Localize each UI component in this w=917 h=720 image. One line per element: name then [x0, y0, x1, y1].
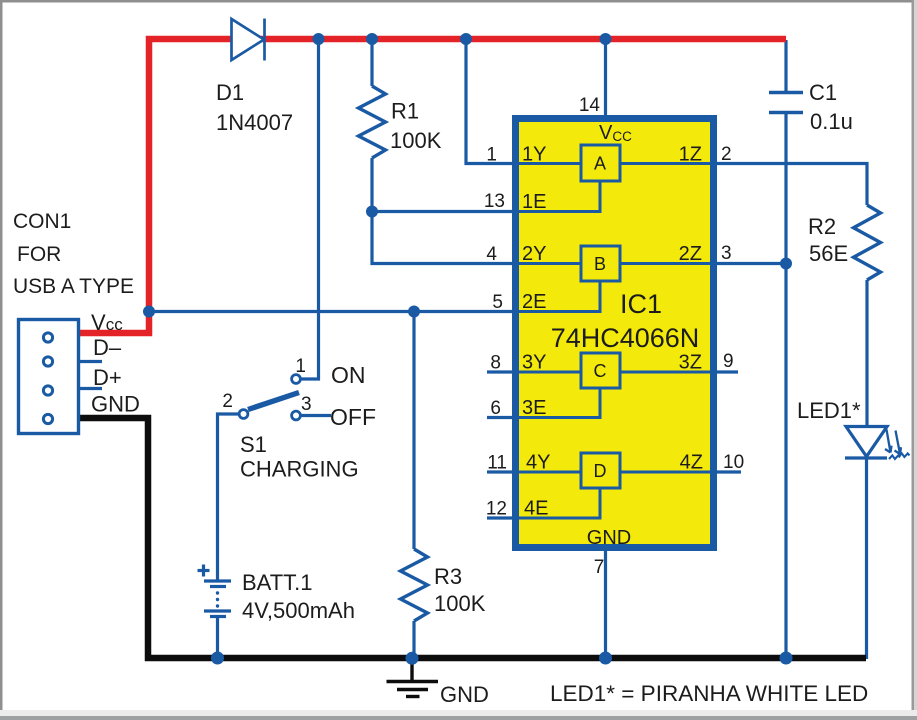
wire: pin7 [604, 548, 607, 657]
switch S1 pole circle (pin2) [239, 410, 248, 419]
svg-text:GND: GND [587, 527, 631, 549]
wire: pin2 (1Z) to R2 [713, 164, 867, 206]
svg-text:56E: 56E [809, 241, 848, 266]
wire: R1 bottom to pin13 node [370, 158, 373, 212]
resistor R2 [854, 205, 881, 280]
svg-text:100K: 100K [434, 591, 486, 616]
svg-text:100K: 100K [390, 128, 442, 153]
wire: 4E internal [519, 489, 600, 518]
junction dot top rail 3 [460, 33, 472, 45]
wire: switch pin3 stub [300, 414, 331, 417]
wire: pin9 stub [717, 370, 738, 373]
svg-text:FOR: FOR [17, 243, 61, 266]
svg-text:2E: 2E [522, 291, 546, 313]
wire: USB D+ stub [80, 387, 102, 390]
svg-text:3: 3 [721, 243, 732, 264]
junction dot top rail 2 [366, 33, 378, 45]
svg-text:4Z: 4Z [680, 452, 703, 474]
svg-text:12: 12 [486, 499, 507, 520]
wire: pin8 stub [487, 370, 512, 373]
svg-text:LED1* = PIRANHA WHITE LED: LED1* = PIRANHA WHITE LED [550, 681, 868, 706]
svg-text:1: 1 [295, 356, 306, 377]
svg-text:2: 2 [222, 391, 233, 412]
LED1 symbol [846, 427, 887, 457]
wire: 4Y internal [519, 471, 581, 474]
svg-text:4Y: 4Y [526, 452, 550, 474]
svg-text:1Z: 1Z [679, 144, 702, 166]
svg-text:9: 9 [723, 351, 734, 372]
svg-text:CON1: CON1 [13, 210, 71, 233]
capacitor C1 [769, 91, 803, 95]
switch cell D [581, 453, 620, 488]
USB pin circle 3 [43, 386, 52, 395]
wire: node to pin4 (2Y) [372, 212, 515, 264]
svg-text:C: C [594, 361, 607, 381]
svg-text:4E: 4E [524, 498, 548, 520]
wire: switch pin2 to battery [218, 414, 241, 580]
resistor R3 [401, 549, 428, 621]
wire: 2Z internal [620, 262, 710, 265]
switch cell B [581, 246, 620, 281]
wire: 3Y internal [519, 371, 581, 374]
wire: 3E internal [519, 389, 600, 418]
wire: pin12 stub [487, 516, 512, 519]
svg-text:GND: GND [440, 682, 489, 707]
wire: 4Z internal [620, 471, 710, 474]
svg-text:8: 8 [490, 353, 501, 374]
battery BATT.1 [204, 579, 231, 582]
wire: pin14 [604, 40, 607, 118]
svg-text:11: 11 [487, 453, 507, 474]
junction dot top rail 1 [313, 33, 325, 45]
svg-text:D1: D1 [216, 80, 244, 105]
svg-text:3: 3 [301, 394, 312, 415]
svg-text:74HC4066N: 74HC4066N [551, 323, 700, 353]
wire: pin1 riser [466, 40, 515, 164]
LED1 emission arrow 1 [887, 430, 891, 453]
svg-text:R1: R1 [391, 99, 419, 124]
svg-text:D–: D– [93, 335, 122, 360]
wire: 2E / pin5 rail from Vcc node [149, 310, 515, 313]
wire: LED1 to ground rail [865, 458, 868, 659]
junction dot top rail 4 (pin14) [600, 33, 612, 45]
IC1 body [516, 119, 714, 548]
svg-text:2: 2 [721, 144, 732, 165]
wire: C1 / pin3 drop [784, 40, 787, 93]
switch S1 throw circle (pin1) [292, 375, 301, 384]
wire: pin10 stub [717, 470, 741, 473]
wire: pin13 (1E) [372, 210, 515, 213]
wire: pin3 (2Z) to C1 line [713, 262, 786, 265]
wire: switch pin1 riser [300, 40, 319, 379]
junction dot R1/pin13 [366, 206, 378, 218]
wire: C1 bottom to ground rail [784, 113, 787, 658]
svg-text:USB A TYPE: USB A TYPE [13, 275, 134, 298]
diode D1 [232, 19, 265, 60]
USB connector CON1 body [19, 320, 79, 434]
junction dot R3 top [408, 306, 420, 318]
svg-text:1: 1 [486, 145, 497, 166]
svg-text:2Z: 2Z [679, 243, 702, 265]
svg-text:3E: 3E [522, 397, 546, 419]
svg-text:10: 10 [723, 452, 744, 473]
junction dot pin3/C1 [780, 258, 792, 270]
svg-text:A: A [594, 154, 606, 174]
svg-text:13: 13 [484, 191, 505, 212]
USB pin circle 4 [43, 414, 52, 423]
wire: 2E internal [519, 282, 600, 312]
junction dot C1/rail [780, 652, 793, 665]
svg-text:D: D [594, 461, 607, 481]
svg-text:7: 7 [594, 557, 605, 578]
svg-text:5: 5 [492, 292, 503, 313]
svg-text:IC1: IC1 [620, 289, 662, 319]
ground symbol [410, 658, 413, 682]
svg-text:CHARGING: CHARGING [240, 457, 359, 482]
switch S1 arm [248, 393, 299, 410]
junction dot pin7/rail [599, 652, 612, 665]
svg-text:BATT.1: BATT.1 [242, 570, 313, 595]
svg-text:4: 4 [486, 244, 497, 265]
switch cell A [581, 145, 620, 181]
svg-text:D+: D+ [93, 365, 122, 390]
wire: GND black path [80, 418, 866, 658]
USB pin circle 1 [43, 333, 52, 342]
svg-text:OFF: OFF [330, 404, 376, 430]
wire: 1Y internal [519, 162, 581, 165]
svg-text:1N4007: 1N4007 [216, 110, 293, 135]
wire: pin11 stub [487, 470, 512, 473]
LED1 emission arrow 2 [896, 431, 901, 455]
wire: Vcc red rail [80, 39, 786, 333]
resistor R1 [359, 86, 386, 158]
svg-text:B: B [594, 254, 606, 274]
svg-text:C1: C1 [809, 80, 837, 105]
switch S1 throw circle (pin3) [292, 411, 301, 420]
USB pin circle 2 [43, 357, 52, 366]
wire: battery bottom [216, 616, 219, 657]
wire: 3Z internal [620, 371, 710, 374]
junction dot battery/rail [211, 652, 224, 665]
svg-text:14: 14 [579, 95, 601, 116]
svg-text:S1: S1 [240, 432, 267, 457]
junction dot Vcc node [143, 306, 155, 318]
wire: USB D- stub [80, 360, 102, 363]
wire: 2Y internal [519, 262, 581, 265]
svg-text:4V,500mAh: 4V,500mAh [242, 598, 355, 623]
junction dot R3/rail [406, 652, 419, 665]
svg-text:3Z: 3Z [679, 352, 702, 374]
svg-text:3Y: 3Y [522, 352, 546, 374]
wire: 1Z internal [620, 162, 710, 165]
svg-text:GND: GND [91, 392, 140, 417]
svg-text:2Y: 2Y [522, 243, 546, 265]
battery plus sign [198, 569, 210, 572]
wire: R2 to LED1 [865, 280, 868, 426]
svg-text:R2: R2 [808, 214, 836, 239]
svg-text:1E: 1E [522, 191, 546, 213]
svg-text:1Y: 1Y [522, 144, 546, 166]
wire: R3 bottom [412, 621, 415, 657]
svg-text:ON: ON [331, 362, 366, 388]
svg-text:6: 6 [490, 398, 501, 419]
switch cell C [581, 353, 620, 388]
wire: R3 branch [412, 312, 415, 550]
wire: 1E internal [519, 182, 600, 212]
svg-text:R3: R3 [434, 564, 462, 589]
wire: R1 branch top [370, 40, 373, 86]
wire: pin6 stub [487, 416, 512, 419]
svg-text:0.1u: 0.1u [810, 109, 853, 134]
svg-text:LED1*: LED1* [797, 398, 861, 423]
